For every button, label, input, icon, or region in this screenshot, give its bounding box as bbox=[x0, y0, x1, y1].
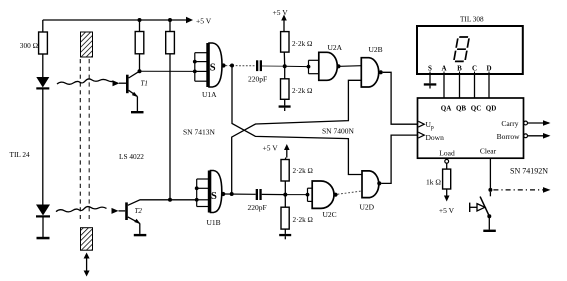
ground display S pin bbox=[424, 74, 437, 89]
NAND U2D bbox=[360, 171, 379, 212]
Clear input bbox=[480, 147, 497, 190]
svg-text:220pF: 220pF bbox=[248, 203, 267, 212]
NAND U2B bbox=[361, 45, 382, 87]
wire U2D out to Down input bbox=[381, 135, 417, 183]
node divider top bbox=[283, 64, 287, 68]
svg-text:2·2k Ω: 2·2k Ω bbox=[293, 167, 313, 175]
vane motion double arrow bbox=[84, 253, 90, 277]
node T1 collector bbox=[138, 69, 142, 73]
display pin labels S A B C D bbox=[428, 65, 491, 73]
LED D2 (TIL 24) bbox=[10, 150, 51, 218]
capacitor C1 220pF bbox=[248, 60, 285, 83]
node U1A output branch bbox=[230, 64, 234, 68]
resistor R6 2.2k (upper) bbox=[281, 158, 313, 195]
ground T2 emitter bbox=[134, 234, 147, 236]
wire display A to QA bbox=[443, 74, 445, 98]
svg-text:A: A bbox=[441, 65, 446, 73]
LED D1 (TIL 24) bbox=[36, 77, 49, 90]
svg-text:U1A: U1A bbox=[202, 90, 217, 99]
resistor R5 2.2k (lower) bbox=[281, 66, 313, 105]
svg-text:SN 7413N: SN 7413N bbox=[183, 128, 215, 137]
node divider bottom bbox=[283, 193, 287, 197]
Carry output bbox=[501, 119, 550, 128]
U1B output bubble-dot bbox=[221, 192, 225, 196]
seven-segment digit 8 bbox=[454, 37, 470, 61]
svg-text:D: D bbox=[486, 65, 491, 73]
U1A output bubble-dot bbox=[221, 63, 225, 67]
svg-text:+5 V: +5 V bbox=[439, 206, 455, 215]
svg-text:Carry: Carry bbox=[501, 119, 518, 128]
svg-text:2·2k Ω: 2·2k Ω bbox=[293, 216, 313, 224]
capacitor C2 220pF bbox=[248, 189, 286, 212]
Up clock input bbox=[418, 120, 434, 131]
svg-text:Load: Load bbox=[439, 149, 455, 158]
svg-text:U2D: U2D bbox=[360, 203, 375, 212]
light beam arrow to T1 bbox=[57, 79, 120, 86]
svg-text:U1B: U1B bbox=[207, 218, 221, 227]
node on rail (R3 top) bbox=[168, 18, 172, 22]
wire T1 node to U1A inputs bbox=[140, 70, 195, 72]
chopper vane bottom (hatched) bbox=[81, 228, 93, 251]
wire divider to U2A bbox=[285, 65, 309, 67]
svg-text:SN 7400N: SN 7400N bbox=[322, 127, 354, 136]
wire display D to QD bbox=[488, 74, 490, 98]
svg-text:Borrow: Borrow bbox=[497, 132, 520, 141]
wire display C to QC bbox=[474, 74, 476, 98]
svg-text:SN 74192N: SN 74192N bbox=[510, 167, 548, 176]
wire U1A out to C1 (dotted) bbox=[226, 65, 257, 67]
svg-text:QB: QB bbox=[456, 105, 466, 113]
svg-text:1k Ω: 1k Ω bbox=[426, 178, 441, 187]
ground below R5 bbox=[279, 105, 291, 111]
svg-text:TIL 24: TIL 24 bbox=[10, 150, 31, 159]
ground below R7 bbox=[279, 234, 291, 239]
NAND U2A bbox=[307, 43, 343, 80]
svg-text:S: S bbox=[428, 65, 432, 73]
cross wire U1B to U2B bbox=[232, 80, 362, 194]
+5V top supply rail bbox=[43, 17, 212, 26]
display TIL 308 box bbox=[417, 16, 523, 75]
svg-text:2·2k Ω: 2·2k Ω bbox=[292, 40, 312, 48]
node on rail (R2 top) bbox=[138, 18, 142, 22]
display pin stubs bbox=[430, 72, 489, 75]
+5V arrow (bottom divider) bbox=[263, 144, 290, 158]
Schmitt NAND U1A (SN 7413N) bbox=[193, 43, 222, 99]
svg-text:C: C bbox=[472, 65, 477, 73]
svg-text:QA: QA bbox=[441, 105, 452, 113]
svg-text:p: p bbox=[431, 125, 434, 131]
wire U2B out to Up input bbox=[383, 72, 418, 124]
wire U2A to U2B bbox=[341, 65, 362, 68]
svg-text:QD: QD bbox=[486, 105, 497, 113]
ground pushbutton bbox=[483, 230, 496, 232]
resistor R7 2.2k (lower) bbox=[281, 195, 313, 234]
ground T1 emitter bbox=[131, 111, 144, 113]
svg-text:TIL 308: TIL 308 bbox=[460, 16, 484, 24]
resistor R2 pull-up T1 bbox=[135, 20, 144, 71]
Borrow output bbox=[497, 132, 551, 141]
svg-text:T1: T1 bbox=[141, 80, 148, 88]
svg-text:+5 V: +5 V bbox=[196, 17, 212, 26]
wire U1B out to C2 bbox=[225, 193, 256, 195]
NAND U2C bbox=[306, 181, 337, 219]
resistor 1k ohm bbox=[426, 163, 451, 189]
pushbutton switch S1 bbox=[470, 192, 492, 230]
phototransistor T2 (LS 4022) bbox=[119, 200, 197, 234]
resistor R3 pull-up T2 bbox=[166, 20, 175, 200]
svg-text:+5 V: +5 V bbox=[263, 144, 279, 153]
U2A output dot bbox=[336, 64, 340, 68]
svg-text:2·2k Ω: 2·2k Ω bbox=[292, 87, 312, 95]
node U1B output branch bbox=[230, 192, 234, 196]
U2B output dot bbox=[379, 70, 383, 74]
svg-text:300 Ω: 300 Ω bbox=[20, 41, 39, 50]
+5V arrow (load pull-up) bbox=[439, 189, 455, 215]
svg-text:220pF: 220pF bbox=[248, 75, 267, 84]
light beam arrow to T2 bbox=[56, 206, 119, 213]
Schmitt NAND U1B (SN 7413N) bbox=[195, 171, 222, 228]
svg-text:B: B bbox=[457, 65, 462, 73]
svg-text:+5 V: +5 V bbox=[273, 8, 289, 17]
wire D1 to D2 bbox=[42, 90, 44, 205]
svg-text:Clear: Clear bbox=[480, 147, 497, 156]
phototransistor T1 (LS 4022) bbox=[119, 71, 148, 111]
resistor R 300 ohm bbox=[20, 20, 48, 77]
svg-text:S: S bbox=[211, 191, 217, 202]
wire divider to U2C bbox=[285, 194, 307, 196]
ground below D2 bbox=[37, 218, 50, 240]
counter SN 74192N box bbox=[418, 98, 549, 176]
chopper slot dashed guide right bbox=[88, 59, 90, 219]
wire U2C to U2D (dotted) bbox=[338, 191, 363, 194]
resistor R4 2.2k (upper) bbox=[281, 26, 313, 67]
U2D output dot bbox=[377, 181, 381, 185]
dashed clear line to external bbox=[493, 187, 550, 193]
svg-text:S: S bbox=[210, 63, 216, 74]
cross wire U1A to U2D bbox=[232, 66, 362, 175]
node T2 collector bbox=[168, 198, 172, 202]
chopper vane top (hatched) bbox=[81, 32, 93, 57]
Load input bbox=[439, 149, 455, 164]
svg-text:T2: T2 bbox=[135, 207, 143, 215]
svg-text:U2B: U2B bbox=[369, 45, 383, 54]
svg-text:QC: QC bbox=[471, 105, 482, 113]
chopper slot dashed guide left bbox=[79, 59, 81, 219]
node clear bbox=[488, 188, 492, 192]
U2C output dot bbox=[333, 193, 337, 197]
Down clock input bbox=[418, 132, 444, 142]
svg-text:Down: Down bbox=[426, 133, 445, 142]
svg-text:LS 4022: LS 4022 bbox=[119, 152, 144, 161]
counter output labels QA QB QC QD bbox=[441, 105, 497, 113]
svg-text:U2C: U2C bbox=[323, 210, 337, 219]
svg-text:U2A: U2A bbox=[328, 43, 343, 52]
+5V arrow (top divider) bbox=[273, 8, 289, 26]
wire display B to QB bbox=[459, 74, 461, 98]
